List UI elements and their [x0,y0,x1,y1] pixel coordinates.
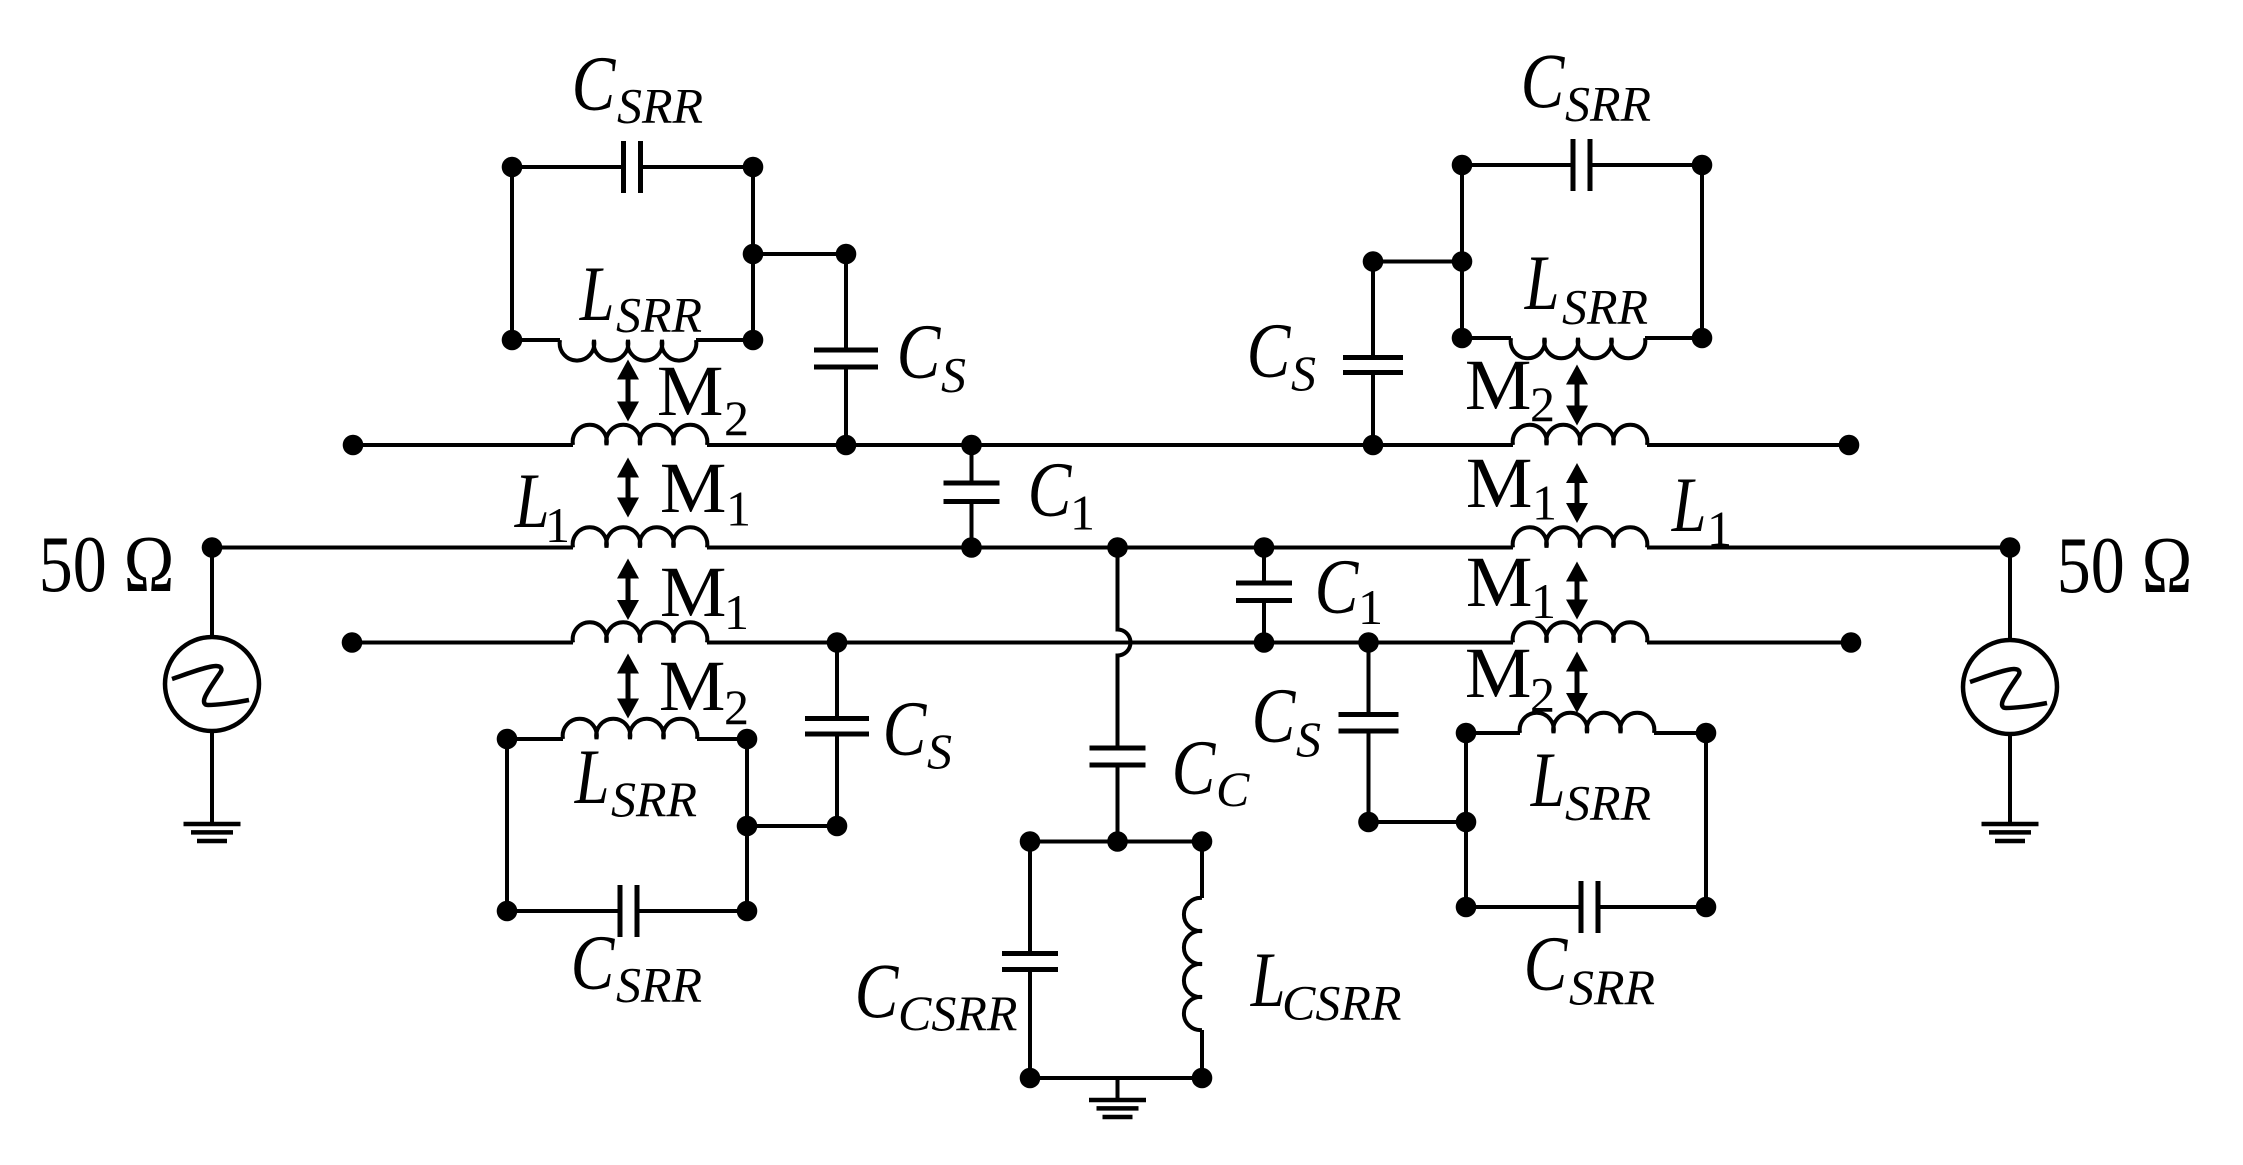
svg-text:L: L [574,735,610,821]
node Cs bottom-right junction on bottom rail [1358,632,1379,653]
ground (left source) [184,822,241,827]
wire middle rail left segment [212,546,573,550]
svg-text:SRR: SRR [1565,775,1651,831]
node Cs bottom-left junction on bottom rail [827,632,848,653]
svg-text:M: M [1466,542,1533,621]
coupling arrow M1 top-right gap [1575,479,1580,507]
node TL loop right-side tap [743,244,764,265]
svg-text:M: M [1465,345,1532,424]
capacitor Cc [1090,746,1146,751]
svg-text:M: M [657,351,724,430]
svg-text:L: L [579,252,615,338]
inductor L_SRR (top-right loop) [1511,338,1646,358]
node Cs top-right junction on top rail [1363,435,1384,456]
svg-text:1: 1 [545,497,570,553]
svg-text:C: C [572,41,617,128]
ground (CSRR) [1089,1098,1146,1103]
inductor M2 (right, top rail) [1513,425,1648,445]
capacitor C1 (right) [1262,548,1266,584]
coupling arrow M2 top-left [626,376,631,406]
SRR loop top-left: bottom side wires [512,338,560,342]
svg-text:C: C [1521,38,1566,125]
svg-text:L: L [1250,938,1286,1024]
wire bottom rail center segment [707,641,1513,645]
node middle rail right terminal [2000,537,2021,558]
node bottom rail right terminal [1841,632,1862,653]
svg-text:1: 1 [1532,475,1557,531]
node top rail right terminal [1839,435,1860,456]
node CSRR corners [1020,831,1041,852]
SRR loop bottom-left: right side [745,739,749,911]
svg-text:2: 2 [1530,376,1555,432]
svg-text:M: M [1466,443,1533,522]
SRR loop top-right: bottom side wires [1462,336,1511,340]
svg-text:L: L [1530,738,1566,824]
SRR loop bottom-left: bottom side with capacitor C_SRR [507,909,620,913]
capacitor Cs (top-left) [844,254,848,350]
wire right source top lead [2008,548,2012,641]
CSRR loop: left side with capacitor C_CSRR [1028,842,1032,954]
svg-text:M: M [660,552,727,631]
CSRR loop: bottom side [1030,1076,1202,1080]
coupling arrow M1 bottom-left gap [626,575,631,605]
svg-text:C: C [1247,308,1292,395]
svg-text:C: C [855,948,900,1035]
wire left source top lead [210,548,214,638]
svg-text:C: C [1252,673,1297,760]
node C1 right bottom [1254,632,1275,653]
svg-text:SRR: SRR [611,771,697,827]
svg-text:C: C [897,309,942,396]
svg-text:L: L [1671,463,1707,549]
source V1 (left 50 ohm port) [165,637,259,731]
svg-text:2: 2 [724,679,749,735]
node TL loop corners [502,157,523,178]
node C1 right top [1254,537,1275,558]
wire left source bottom lead [210,731,214,824]
node BL stub end [827,816,848,837]
capacitor Cs (top-right) [1371,262,1375,358]
ground (right source) [1982,822,2039,827]
node top rail left terminal [343,435,364,456]
svg-text:C: C [571,920,616,1007]
svg-text:2: 2 [1530,667,1555,723]
CSRR loop: right side wires [1200,842,1204,899]
SRR loop top-left: right side [751,167,755,340]
svg-text:C: C [883,686,928,773]
inductor L_SRR (bottom-right loop, top side) [1520,713,1655,733]
svg-text:M: M [659,646,726,725]
wire middle rail center segment [707,546,1513,550]
wire right source bottom lead [2008,734,2012,824]
svg-text:S: S [927,723,952,779]
node Cc tap on middle rail [1107,537,1128,558]
svg-text:C: C [1028,447,1073,534]
svg-text:CSRR: CSRR [898,985,1017,1041]
svg-text:CSRR: CSRR [1282,975,1401,1031]
svg-text:50 Ω: 50 Ω [39,521,175,609]
svg-text:C: C [1216,761,1250,817]
SRR loop top-right: top side with capacitor C_SRR [1462,163,1573,167]
svg-text:M: M [1465,633,1532,712]
capacitor Cs (bottom-left) [835,643,839,719]
SRR loop top-right: right side [1700,165,1704,338]
node TR loop left-side tap [1452,251,1473,272]
SRR loop bottom-left: left side [505,739,509,911]
svg-text:SRR: SRR [616,287,702,343]
node bottom rail left terminal [342,632,363,653]
svg-text:C: C [1524,921,1569,1008]
wire BL stub to Cs [747,824,837,828]
wire top rail right segment [1647,443,1849,447]
SRR loop top-left: top side with capacitor C_SRR [512,165,624,169]
coupling arrow M1 top-left gap [626,474,631,502]
svg-text:SRR: SRR [1565,76,1651,132]
wire middle rail right segment [1647,546,2010,550]
SRR loop top-right: left side [1460,165,1464,338]
svg-text:1: 1 [1707,501,1732,557]
SRR loop bottom-right: bottom side with capacitor C_SRR [1466,905,1581,909]
svg-text:2: 2 [724,390,749,446]
node Cs top-left junction on top rail [836,435,857,456]
wire top rail middle segment [707,443,1513,447]
node C1 left bottom [961,537,982,558]
inductor L1 (left, middle rail) [573,527,708,547]
coupling arrow M2 bottom-left [626,670,631,703]
inductor L1 (right, middle rail) [1513,527,1648,547]
wire TR stub to Cs [1373,260,1462,264]
wire bottom rail left segment [352,641,573,645]
svg-text:1: 1 [1070,485,1095,541]
node middle rail left terminal [202,537,223,558]
node TR loop corners [1452,155,1473,176]
svg-text:1: 1 [724,584,749,640]
capacitor C1 (left) [970,445,974,483]
node BR stub end [1358,812,1379,833]
wire CSRR ground stem [1116,1078,1120,1100]
svg-text:C: C [1315,544,1360,631]
inductor M2 (left, top rail) [573,425,708,445]
node BL loop right-side tap [737,816,758,837]
CSRR loop: top side [1030,840,1202,844]
svg-text:1: 1 [726,481,751,537]
wire Cc branch with hop over bottom rail [1118,548,1131,749]
SRR loop bottom-left: top side wires [507,737,563,741]
node BR loop left-side tap [1456,812,1477,833]
coupling arrow M2 top-right [1575,381,1580,410]
svg-text:S: S [1291,345,1316,401]
inductor L_SRR (bottom-left loop, top side) [563,719,698,739]
inductor M1 (right, bottom rail) [1513,622,1648,642]
svg-text:S: S [941,347,966,403]
SRR loop bottom-right: right side [1704,733,1708,907]
node TR stub end [1363,251,1384,272]
SRR loop bottom-right: top side wires [1466,731,1520,735]
node BR loop corners [1456,723,1477,744]
SRR loop top-left: left side [510,167,514,340]
svg-text:SRR: SRR [1562,279,1648,335]
SRR loop bottom-right: left side [1464,733,1468,907]
svg-text:1: 1 [1358,579,1383,635]
svg-text:SRR: SRR [1569,959,1655,1015]
node TL stub end [836,244,857,265]
coupling arrow M2 bottom-right [1575,668,1580,698]
inductor L_SRR (top-left loop) [560,340,697,361]
wire BR stub to Cs [1369,820,1467,824]
capacitor Cs (bottom-right) [1367,643,1371,715]
wire top rail left segment [353,443,573,447]
node BL loop corners [497,729,518,750]
svg-text:SRR: SRR [617,78,703,134]
svg-text:SRR: SRR [616,957,702,1013]
svg-text:M: M [660,448,727,527]
inductor M1 (left, bottom rail) [573,622,708,642]
inductor L_CSRR [1184,898,1202,1030]
svg-text:L: L [1524,241,1560,327]
coupling arrow M1 bottom-right gap [1575,578,1580,604]
wire bottom rail right segment [1647,641,1851,645]
svg-text:C: C [1172,725,1217,812]
svg-text:1: 1 [1531,573,1556,629]
node C1 left top [961,435,982,456]
svg-text:S: S [1296,711,1321,767]
svg-text:50 Ω: 50 Ω [2057,522,2193,610]
wire TL stub to Cs [753,252,846,256]
source V2 (right 50 ohm port) [1963,640,2057,734]
wire Cc to CSRR loop [1116,765,1120,842]
